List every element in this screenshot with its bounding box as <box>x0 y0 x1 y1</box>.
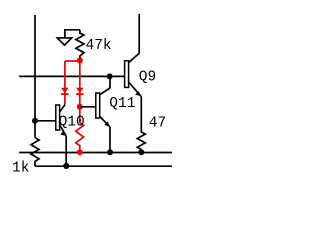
resistor red (unlabelled) <box>76 107 84 153</box>
wire Q11 collector vertical <box>109 76 111 88</box>
node junction Q10 emitter on lower rail <box>63 163 69 169</box>
diode D-left (red) <box>61 88 69 94</box>
label Q10 <box>59 115 85 131</box>
label 47k <box>86 38 112 54</box>
wire Q9 collector vertical <box>138 14 140 53</box>
svg-text:1k: 1k <box>12 160 29 176</box>
wire red right vertical <box>79 60 81 106</box>
wire lower bottom rail <box>35 165 172 167</box>
wire red left vertical <box>64 61 66 105</box>
wire Q10 emitter vertical <box>65 136 67 166</box>
transistor Q9 <box>125 53 141 96</box>
wire middle horizontal (Q9 base net) <box>19 75 124 77</box>
wire Q11 base (black) <box>80 106 96 108</box>
label 1k <box>12 160 29 176</box>
transistor Q11 <box>96 88 110 127</box>
wire Q11 emitter vertical <box>109 127 111 152</box>
transistor Q10 <box>56 105 66 136</box>
resistor 47k <box>76 30 84 61</box>
svg-text:Q10: Q10 <box>59 115 85 131</box>
resistor 47 <box>137 131 145 152</box>
node junction Q11 collector on middle wire <box>107 73 113 79</box>
node junction Q10 base on left bus <box>32 118 38 124</box>
svg-text:47k: 47k <box>86 38 112 54</box>
svg-text:Q11: Q11 <box>109 96 135 112</box>
wire Q9 emitter vertical <box>140 96 142 131</box>
supply arrow terminal <box>57 30 80 45</box>
label Q11 <box>109 96 135 112</box>
wire red horizontal branch <box>65 60 80 62</box>
wire Q10 base <box>35 120 56 122</box>
node red junction on upper rail <box>77 149 83 155</box>
svg-text:Q9: Q9 <box>139 70 156 86</box>
label Q9 <box>139 70 156 86</box>
svg-text:47: 47 <box>149 115 166 131</box>
diode D-right (red) <box>76 88 84 94</box>
node junction Q11 emitter on upper rail <box>107 149 113 155</box>
wire left vertical bus <box>34 15 36 138</box>
node red junction middle (Q11 base net) <box>77 104 83 110</box>
node red junction top (47k bottom) <box>77 57 83 63</box>
resistor 1k <box>31 138 39 167</box>
wire upper bottom rail <box>19 152 172 154</box>
node junction 47 bottom on upper rail <box>138 149 144 155</box>
label 47 <box>149 115 166 131</box>
